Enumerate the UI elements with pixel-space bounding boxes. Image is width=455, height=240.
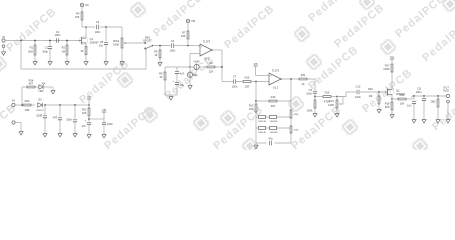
- svg-text:-: -: [270, 81, 271, 85]
- wire clip bottom: [256, 142, 291, 144]
- diode D4: [258, 126, 266, 134]
- capacitor C10: [355, 85, 361, 99]
- node VA: [88, 104, 90, 106]
- power VA flag main: [87, 95, 91, 105]
- wire wiper: [127, 42, 145, 44]
- resistor R19: [398, 93, 406, 106]
- resistor R4: [75, 12, 83, 20]
- ground: [158, 61, 162, 66]
- wire: [392, 98, 412, 100]
- LED D7: [39, 82, 47, 93]
- svg-text:TL072: TL072: [272, 69, 280, 73]
- svg-text:9V: 9V: [12, 99, 16, 103]
- svg-text:10K: 10K: [400, 102, 405, 106]
- capacitor C7: [232, 75, 238, 89]
- wire: [88, 105, 90, 108]
- connector J1 sleeve pad: [2, 45, 5, 48]
- power VA flag: [390, 55, 394, 59]
- svg-text:15K: 15K: [75, 15, 80, 19]
- wire: [47, 87, 53, 89]
- trimpot below fb: [187, 67, 197, 84]
- svg-text:R4: R4: [76, 12, 80, 16]
- wire: [121, 27, 123, 38]
- wire gain net bottom: [165, 94, 177, 96]
- svg-text:+: +: [85, 119, 87, 123]
- capacitor C13: [53, 105, 62, 132]
- node: [74, 104, 76, 106]
- wire LED branch: [22, 87, 27, 105]
- svg-text:R15: R15: [325, 91, 330, 95]
- diode D1: [35, 98, 45, 112]
- svg-text:100u: 100u: [36, 113, 42, 117]
- svg-text:10K: 10K: [82, 111, 87, 115]
- wire: [145, 47, 147, 49]
- diode D7b: [290, 126, 299, 133]
- resistor R3: [80, 47, 87, 55]
- node: [21, 104, 23, 106]
- ground: [422, 118, 426, 123]
- wire: [3, 48, 5, 51]
- node: [437, 95, 439, 97]
- power VB flag: [253, 62, 257, 66]
- svg-text:C5: C5: [100, 40, 104, 44]
- svg-text:2M2: 2M2: [430, 100, 436, 104]
- svg-text:R17: R17: [385, 64, 390, 68]
- svg-text:Q2: Q2: [396, 88, 400, 92]
- svg-text:D1: D1: [38, 98, 42, 102]
- resistor R6: [207, 61, 216, 73]
- connector DC 9V pad: [12, 99, 16, 107]
- wire: [314, 79, 316, 90]
- wire fb2 row: [256, 100, 291, 102]
- ground: [1, 50, 5, 55]
- resistor R8a: [159, 67, 166, 95]
- capacitor C6a: [175, 67, 185, 82]
- svg-text:100n: 100n: [95, 30, 101, 34]
- resistor R13: [269, 95, 278, 108]
- svg-text:+: +: [270, 74, 272, 78]
- wire: [85, 27, 87, 38]
- wire: [15, 123, 21, 131]
- svg-text:4148: 4148: [294, 130, 300, 132]
- svg-text:1N4148: 1N4148: [270, 121, 278, 123]
- svg-text:10K: 10K: [245, 84, 250, 88]
- diode D5: [270, 126, 279, 134]
- svg-text:10u: 10u: [99, 44, 104, 48]
- svg-text:+: +: [173, 79, 175, 83]
- svg-text:10K: 10K: [181, 34, 186, 38]
- wire fb2 right vert: [290, 79, 292, 143]
- svg-text:100n: 100n: [232, 84, 238, 88]
- wire: [447, 103, 449, 118]
- svg-text:100n: 100n: [55, 33, 61, 37]
- wire: [5, 40, 79, 42]
- wire: [222, 81, 269, 83]
- wire feedback: [190, 66, 223, 68]
- svg-text:C3: C3: [96, 20, 100, 24]
- svg-text:R1: R1: [30, 46, 34, 50]
- svg-text:C1: C1: [45, 46, 49, 50]
- ground: [102, 133, 106, 138]
- svg-text:10u: 10u: [180, 83, 185, 87]
- resistor R18: [385, 99, 393, 113]
- wire: [412, 96, 446, 99]
- resistor R14: [307, 100, 316, 113]
- power VB port: [186, 19, 195, 23]
- resistor R12: [249, 104, 257, 112]
- svg-text:VB: VB: [191, 19, 195, 23]
- wire: [121, 48, 123, 60]
- svg-text:1M: 1M: [61, 49, 65, 53]
- ground: [254, 144, 258, 149]
- svg-text:4148: 4148: [294, 114, 300, 116]
- svg-text:R12: R12: [249, 104, 254, 108]
- wire: [21, 41, 146, 70]
- connector DC sleeve pad: [12, 121, 15, 124]
- svg-text:C4: C4: [171, 39, 175, 43]
- capacitor C1: [42, 40, 52, 60]
- wire minus input: [190, 54, 200, 68]
- trimpot RV3 GAIN: [194, 60, 200, 69]
- resistor R1: [28, 40, 36, 60]
- svg-text:100n: 100n: [306, 91, 312, 95]
- svg-text:1N4148: 1N4148: [258, 121, 266, 123]
- wire: [105, 27, 107, 41]
- resistor R17: [383, 64, 393, 72]
- svg-text:R18: R18: [385, 102, 390, 106]
- resistor R20: [23, 99, 32, 112]
- svg-text:TL072: TL072: [203, 40, 211, 44]
- svg-text:2M2: 2M2: [28, 49, 34, 53]
- wire output: [211, 49, 222, 81]
- connector J2 sleeve pad: [447, 100, 450, 103]
- svg-text:1M: 1M: [369, 94, 373, 98]
- ground: [169, 95, 173, 100]
- svg-text:4u7: 4u7: [180, 71, 185, 75]
- ground: [33, 60, 37, 65]
- svg-text:10R: 10R: [25, 108, 30, 112]
- svg-text:C7: C7: [233, 75, 237, 79]
- node: [336, 96, 338, 98]
- svg-text:LED: LED: [39, 90, 44, 93]
- wire: [82, 20, 122, 27]
- resistor R15: [323, 91, 331, 104]
- svg-text:100K: 100K: [307, 109, 313, 113]
- svg-text:-: -: [201, 52, 202, 56]
- svg-text:R11: R11: [301, 73, 306, 77]
- wire: [81, 7, 83, 12]
- svg-text:100n: 100n: [416, 90, 422, 94]
- ground: [73, 132, 77, 137]
- wire clip row1: [256, 116, 291, 118]
- capacitor C15: [82, 119, 91, 133]
- diode D3: [270, 115, 279, 123]
- op-amp U1B: [269, 69, 281, 90]
- connector J1 IN pad: [2, 35, 5, 42]
- svg-text:GAIN: GAIN: [194, 60, 200, 63]
- svg-text:47u: 47u: [53, 115, 58, 119]
- switch SW1: [143, 36, 153, 50]
- svg-text:C11: C11: [417, 87, 422, 91]
- svg-text:100K: 100K: [328, 103, 334, 107]
- svg-text:R9: R9: [159, 72, 163, 76]
- node: [105, 26, 107, 28]
- power VB flag main: [102, 108, 106, 119]
- svg-text:JACK: JACK: [443, 90, 450, 93]
- ground: [390, 113, 394, 118]
- svg-text:100n: 100n: [355, 95, 361, 99]
- resistor R11 series: [299, 73, 308, 86]
- diode D6: [290, 110, 299, 118]
- wire: [153, 45, 171, 47]
- diode D2: [258, 115, 266, 123]
- svg-text:R22: R22: [82, 108, 87, 112]
- svg-text:50K: 50K: [193, 73, 198, 77]
- svg-text:47p: 47p: [268, 136, 273, 140]
- svg-text:R13: R13: [271, 95, 276, 99]
- wire output2: [280, 78, 315, 80]
- watermark pattern: [0, 0, 455, 156]
- svg-text:VOL: VOL: [329, 99, 335, 103]
- svg-text:R5: R5: [154, 50, 158, 54]
- wire: [103, 119, 105, 121]
- ground: [335, 112, 339, 117]
- svg-text:1K: 1K: [80, 49, 83, 53]
- node: [378, 91, 380, 93]
- capacitor C4: [170, 39, 188, 53]
- wire rail: [15, 104, 89, 106]
- svg-text:R16: R16: [368, 87, 373, 91]
- wire: [315, 96, 337, 98]
- wire: [88, 116, 90, 121]
- svg-text:C10: C10: [356, 85, 361, 89]
- svg-text:R19: R19: [400, 93, 405, 97]
- wire drain2: [391, 72, 393, 90]
- svg-text:15K: 15K: [249, 107, 254, 111]
- ground: [313, 112, 317, 117]
- ground: [436, 118, 440, 123]
- resistor R5: [154, 45, 161, 61]
- wire clip row2: [256, 127, 291, 129]
- ground: [51, 89, 55, 94]
- wire: [336, 108, 338, 112]
- resistor R21: [27, 78, 35, 88]
- svg-text:R2: R2: [62, 46, 66, 50]
- svg-text:VB: VB: [102, 108, 106, 112]
- transistor Q2: [385, 88, 406, 96]
- wire fb2 vert: [255, 82, 257, 144]
- capacitor C5 electrolytic: [99, 39, 108, 60]
- node bypass junction: [20, 40, 22, 42]
- wire: [89, 118, 104, 120]
- node: [423, 95, 425, 97]
- svg-text:R10: R10: [245, 76, 250, 80]
- svg-text:1N4148: 1N4148: [258, 132, 266, 134]
- node fb2: [255, 100, 257, 102]
- svg-text:BIAS: BIAS: [113, 39, 119, 43]
- svg-text:BOOST: BOOST: [143, 39, 152, 42]
- svg-text:100n: 100n: [66, 117, 72, 121]
- ground: [120, 60, 124, 65]
- power VA port: [80, 3, 88, 7]
- wire source2: [391, 94, 393, 99]
- svg-text:1K: 1K: [301, 82, 304, 86]
- svg-text:VA: VA: [390, 55, 394, 59]
- wire: [35, 86, 39, 88]
- svg-text:R6: R6: [209, 61, 213, 65]
- svg-text:100n: 100n: [170, 48, 176, 52]
- svg-text:100K: 100K: [113, 43, 119, 47]
- node: [59, 104, 61, 106]
- svg-text:Q1: Q1: [90, 37, 94, 41]
- ground: [65, 60, 69, 65]
- resistor R7: [181, 31, 189, 39]
- svg-text:100p: 100p: [42, 49, 48, 53]
- ground: [188, 84, 192, 89]
- svg-text:47u: 47u: [82, 124, 87, 128]
- svg-text:5K6: 5K6: [385, 105, 390, 109]
- node out2: [290, 78, 292, 80]
- svg-text:1N4148: 1N4148: [270, 132, 278, 134]
- svg-text:R20: R20: [25, 99, 30, 103]
- wire: [337, 92, 356, 97]
- resistor R2: [61, 40, 68, 60]
- node: [391, 98, 393, 100]
- svg-text:U1.1: U1.1: [204, 56, 210, 60]
- resistor R22: [82, 108, 90, 116]
- capacitor C17: [36, 105, 47, 132]
- capacitor C11: [416, 87, 426, 118]
- capacitor C2: [55, 30, 61, 43]
- svg-text:4K7: 4K7: [29, 81, 34, 85]
- ground: [19, 130, 23, 135]
- svg-text:VA: VA: [87, 95, 91, 99]
- ground: [412, 118, 416, 123]
- svg-text:1K: 1K: [159, 75, 162, 79]
- node fb: [189, 66, 191, 68]
- ground: [104, 60, 108, 65]
- node VB: [88, 118, 90, 120]
- svg-text:100n: 100n: [107, 122, 113, 126]
- transistor Q1: [79, 36, 99, 44]
- svg-text:1K: 1K: [154, 53, 157, 57]
- svg-text:C9: C9: [309, 88, 313, 92]
- svg-text:100R: 100R: [383, 67, 389, 71]
- node drain: [85, 26, 87, 28]
- svg-text:22K: 22K: [209, 69, 214, 73]
- wire gain net top: [165, 66, 190, 68]
- node: [44, 104, 46, 106]
- ground: [48, 60, 52, 65]
- resistor R10: [243, 76, 252, 89]
- svg-text:VB: VB: [253, 62, 257, 66]
- svg-text:R7: R7: [182, 31, 186, 35]
- connector J2 OUT pad: [443, 85, 450, 97]
- capacitor C3: [95, 20, 101, 34]
- capacitor C9: [306, 88, 317, 96]
- wire: [85, 43, 87, 60]
- capacitor C6b: [173, 79, 185, 95]
- ground: [87, 133, 91, 138]
- node: [413, 95, 415, 97]
- potentiometer RV2 VOL: [328, 97, 343, 109]
- capacitor C12: [407, 96, 416, 118]
- capacitor C8: [267, 136, 275, 145]
- ground: [58, 132, 62, 137]
- svg-text:IN: IN: [2, 35, 5, 39]
- ground: [446, 118, 450, 123]
- capacitor C16: [102, 122, 113, 133]
- wire: [391, 59, 393, 64]
- node: [314, 96, 316, 98]
- wire: [256, 66, 270, 76]
- svg-text:+: +: [201, 45, 203, 49]
- potentiometer RV1 BIAS: [113, 38, 126, 48]
- svg-text:VA: VA: [85, 3, 89, 7]
- wire: [314, 93, 316, 112]
- wire: [360, 91, 384, 93]
- ground: [43, 132, 47, 137]
- ground: [377, 108, 381, 113]
- wire: [187, 23, 189, 31]
- resistor R23: [430, 96, 438, 118]
- capacitor C14: [66, 105, 77, 132]
- svg-text:10n: 10n: [407, 103, 412, 107]
- node inv: [255, 81, 257, 83]
- svg-text:22K: 22K: [271, 104, 276, 108]
- resistor R16: [368, 87, 380, 108]
- wire: [187, 39, 200, 47]
- svg-text:U1.2: U1.2: [273, 85, 279, 89]
- op-amp U1A: [200, 40, 212, 61]
- ground: [84, 60, 88, 65]
